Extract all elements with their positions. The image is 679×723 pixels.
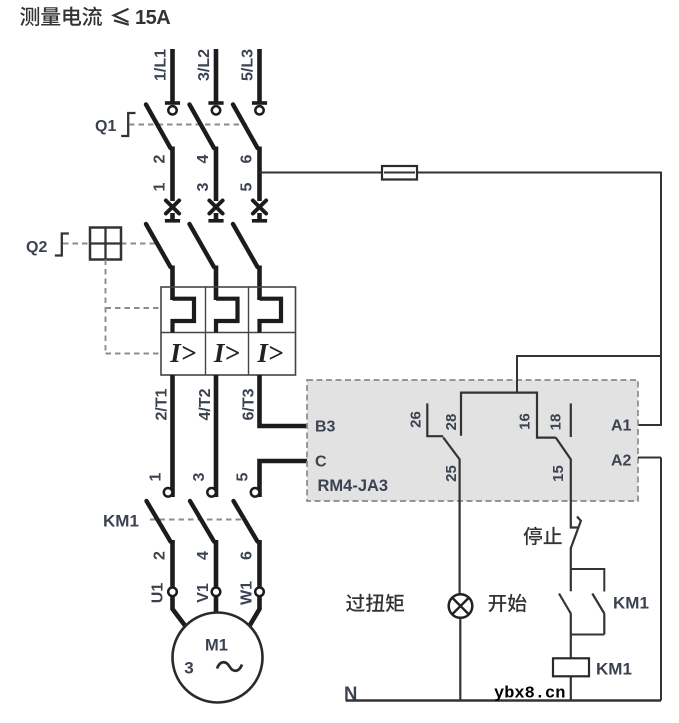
- svg-text:4/T2: 4/T2: [197, 388, 214, 420]
- Q2 pole 3 contact: [233, 224, 260, 300]
- svg-text:5/L3: 5/L3: [240, 49, 257, 81]
- contact 18 terminal: [570, 403, 572, 437]
- svg-text:1: 1: [152, 182, 169, 191]
- wire T1 to KM1: [170, 375, 175, 497]
- breaker Q1 label and actuator: [95, 113, 136, 136]
- supply line 5/L3: [240, 49, 260, 102]
- KM1 pole 5-6: [173, 166, 662, 704]
- svg-text:3: 3: [191, 472, 208, 481]
- svg-text:1: 1: [148, 472, 165, 481]
- svg-text:2: 2: [152, 154, 169, 163]
- thermal element phase 1: [173, 299, 195, 333]
- fuse F1: [382, 166, 417, 180]
- motor protection Q2 label and actuator: [26, 234, 69, 257]
- svg-text:A1: A1: [611, 418, 632, 435]
- right changeover blade 15: [556, 438, 571, 501]
- overload relay box: [161, 287, 296, 375]
- stop button NC contact: [571, 501, 582, 569]
- wire branch to relay top: [517, 356, 661, 393]
- svg-text:4: 4: [195, 551, 212, 560]
- svg-text:KM1: KM1: [613, 594, 649, 613]
- svg-text:18: 18: [548, 414, 565, 431]
- svg-text:KM1: KM1: [596, 660, 632, 679]
- svg-text:25: 25: [443, 465, 460, 482]
- Q2 linkage dashed: [63, 243, 90, 245]
- svg-text:5: 5: [239, 182, 256, 191]
- svg-text:KM1: KM1: [103, 512, 139, 531]
- KM1 auxiliary NO contact: [571, 594, 605, 635]
- svg-text:W1: W1: [239, 581, 256, 605]
- wire to coil: [570, 635, 572, 701]
- svg-text:6: 6: [239, 551, 256, 560]
- svg-text:M1: M1: [205, 637, 228, 655]
- wire A2 to N: [660, 458, 662, 701]
- svg-text:I>: I>: [256, 338, 283, 368]
- svg-text:28: 28: [443, 414, 460, 431]
- coil KM1: [553, 658, 589, 676]
- svg-text:U1: U1: [150, 583, 167, 604]
- KM1 pole 1-2: [147, 166, 662, 704]
- label 停止: [524, 527, 542, 546]
- supply line 3/L2: [196, 49, 216, 102]
- wire T2 to KM1: [214, 375, 219, 497]
- thermal element phase 2: [216, 299, 238, 333]
- svg-text:V1: V1: [195, 583, 212, 603]
- svg-text:3/L2: 3/L2: [196, 49, 213, 81]
- svg-text:2: 2: [152, 551, 169, 560]
- svg-text:15A: 15A: [135, 7, 170, 29]
- internal rail 28-16: [461, 393, 556, 438]
- svg-text:16: 16: [517, 413, 534, 430]
- svg-text:1/L1: 1/L1: [153, 49, 170, 81]
- motor M1: [173, 613, 263, 703]
- Q2 trip linkage dashed: [106, 260, 162, 354]
- Q1 pole 3-4: [190, 103, 224, 221]
- Q1 pole 5-6: [233, 103, 267, 221]
- svg-text:15: 15: [550, 465, 567, 482]
- title 测量电流 ≤ 15A: [20, 7, 170, 29]
- wire right side down to A1: [638, 172, 661, 426]
- lamp over-torque: [449, 594, 473, 618]
- start button NO contact: [559, 569, 571, 635]
- svg-text:2/T1: 2/T1: [154, 388, 171, 420]
- svg-text:5: 5: [235, 472, 252, 481]
- svg-text:Q1: Q1: [95, 118, 116, 135]
- A2 stub: [638, 457, 661, 459]
- svg-text:3: 3: [195, 182, 212, 191]
- relay RM4-JA3 module box: [307, 380, 638, 501]
- svg-text:ybx8.cn: ybx8.cn: [494, 685, 565, 704]
- svg-text:I>: I>: [169, 338, 196, 368]
- wire phase to fuse: [260, 172, 662, 174]
- svg-text:26: 26: [408, 411, 425, 428]
- svg-text:A2: A2: [611, 453, 632, 470]
- label 过扭矩: [346, 594, 365, 612]
- svg-text:6: 6: [239, 154, 256, 163]
- svg-text:4: 4: [195, 154, 212, 163]
- KM1 linkage dashed: [150, 519, 243, 521]
- svg-text:RM4-JA3: RM4-JA3: [318, 477, 389, 495]
- Q1 linkage dashed: [129, 124, 247, 126]
- Q2 operator square: [90, 228, 121, 260]
- parallel bracket top: [571, 569, 605, 592]
- svg-text:Q2: Q2: [26, 239, 47, 256]
- Q2 pole 2 contact: [190, 224, 217, 300]
- supply line 1/L1: [153, 49, 173, 102]
- motor feeder wires: [173, 596, 187, 628]
- label 开始: [488, 595, 506, 612]
- svg-text:B3: B3: [315, 419, 336, 436]
- Q2 pole 1 contact: [146, 224, 173, 300]
- wire lamp to N: [459, 618, 461, 700]
- contact 26 terminal: [427, 403, 443, 436]
- svg-text:I>: I>: [213, 338, 240, 368]
- wire C to KM1 pole 5: [260, 461, 308, 497]
- wire T3 to B3: [257, 375, 307, 426]
- thermal element phase 3: [260, 299, 282, 333]
- neutral rail: [346, 699, 662, 701]
- svg-text:3: 3: [184, 659, 193, 678]
- KM1 pole 3-4: [173, 166, 662, 704]
- wire 25 to lamp: [459, 501, 461, 595]
- Q1 pole 1-2: [146, 103, 180, 221]
- left changeover blade 25: [443, 437, 459, 501]
- svg-text:6/T3: 6/T3: [241, 388, 258, 420]
- svg-text:C: C: [315, 454, 327, 471]
